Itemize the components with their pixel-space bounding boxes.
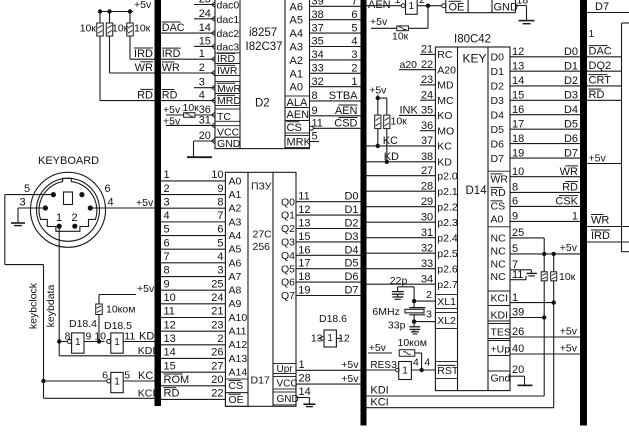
svg-text:D6: D6 bbox=[344, 271, 358, 283]
svg-text:D4: D4 bbox=[491, 110, 505, 122]
svg-text:D6: D6 bbox=[491, 138, 505, 150]
svg-text:17: 17 bbox=[298, 258, 310, 270]
svg-text:12: 12 bbox=[512, 46, 524, 58]
svg-text:8: 8 bbox=[312, 90, 318, 102]
svg-text:15: 15 bbox=[199, 35, 211, 47]
svg-text:keybdata: keybdata bbox=[45, 285, 57, 328]
svg-text:KC: KC bbox=[383, 135, 398, 147]
svg-text:23: 23 bbox=[211, 319, 223, 331]
svg-text:13: 13 bbox=[164, 333, 176, 345]
svg-text:8: 8 bbox=[217, 196, 223, 208]
svg-text:WR: WR bbox=[162, 62, 180, 74]
svg-text:25: 25 bbox=[211, 278, 223, 290]
svg-text:RD: RD bbox=[589, 89, 605, 101]
svg-text:1: 1 bbox=[75, 337, 81, 348]
svg-text:+5v: +5v bbox=[560, 325, 578, 337]
svg-text:AEN: AEN bbox=[335, 105, 358, 117]
svg-text:A0: A0 bbox=[491, 214, 504, 226]
svg-text:25: 25 bbox=[512, 227, 524, 239]
svg-text:6: 6 bbox=[102, 370, 108, 382]
svg-text:5: 5 bbox=[217, 237, 223, 249]
svg-text:14: 14 bbox=[512, 75, 524, 87]
svg-text:23: 23 bbox=[421, 74, 433, 86]
svg-text:33: 33 bbox=[421, 258, 433, 270]
svg-text:3: 3 bbox=[20, 197, 26, 209]
svg-text:DAC: DAC bbox=[162, 22, 185, 34]
svg-text:A12: A12 bbox=[229, 339, 248, 351]
svg-text:KCI: KCI bbox=[370, 397, 388, 409]
svg-text:1: 1 bbox=[572, 211, 578, 223]
svg-text:NC: NC bbox=[491, 259, 507, 271]
svg-text:6: 6 bbox=[217, 224, 223, 236]
svg-text:D0: D0 bbox=[564, 46, 578, 58]
svg-text:WR: WR bbox=[591, 215, 609, 227]
svg-text:A6: A6 bbox=[290, 1, 303, 13]
svg-text:37: 37 bbox=[421, 135, 433, 147]
svg-text:24: 24 bbox=[199, 8, 211, 20]
svg-text:11: 11 bbox=[298, 191, 309, 203]
svg-text:+5v: +5v bbox=[134, 0, 152, 11]
svg-text:D6: D6 bbox=[564, 133, 578, 145]
svg-text:+5v: +5v bbox=[136, 197, 154, 209]
svg-text:+5v: +5v bbox=[370, 16, 388, 28]
svg-text:WR: WR bbox=[491, 174, 509, 186]
svg-text:1: 1 bbox=[299, 359, 305, 371]
svg-text:40: 40 bbox=[512, 343, 524, 355]
svg-text:10ком: 10ком bbox=[398, 337, 427, 349]
svg-text:5: 5 bbox=[312, 131, 318, 143]
svg-text:keybclock: keybclock bbox=[28, 282, 40, 329]
svg-text:39: 39 bbox=[312, 0, 324, 8]
svg-text:A3: A3 bbox=[290, 42, 303, 54]
svg-text:30: 30 bbox=[421, 211, 433, 223]
svg-text:Gnd: Gnd bbox=[491, 373, 511, 385]
svg-text:KD: KD bbox=[139, 331, 154, 343]
svg-text:GND: GND bbox=[494, 1, 519, 13]
svg-text:+5v: +5v bbox=[589, 153, 607, 165]
svg-text:14: 14 bbox=[199, 22, 211, 34]
svg-text:18: 18 bbox=[298, 271, 310, 283]
svg-text:D1: D1 bbox=[491, 66, 505, 78]
svg-text:5: 5 bbox=[512, 243, 518, 255]
svg-text:19: 19 bbox=[298, 285, 310, 297]
svg-text:4: 4 bbox=[351, 36, 357, 48]
svg-text:33p: 33p bbox=[388, 320, 406, 332]
svg-text:AEN: AEN bbox=[287, 109, 310, 121]
svg-text:11: 11 bbox=[164, 306, 175, 318]
svg-text:MD: MD bbox=[437, 80, 454, 92]
svg-text:ПЗУ: ПЗУ bbox=[251, 180, 272, 192]
svg-text:+5v: +5v bbox=[369, 342, 387, 354]
svg-text:p2.0: p2.0 bbox=[437, 171, 458, 183]
svg-text:A2: A2 bbox=[290, 55, 303, 67]
svg-text:RD: RD bbox=[162, 89, 178, 101]
svg-text:32: 32 bbox=[421, 242, 433, 254]
svg-text:10: 10 bbox=[164, 292, 176, 304]
svg-text:4: 4 bbox=[108, 197, 114, 209]
svg-text:11: 11 bbox=[512, 269, 523, 281]
svg-text:11: 11 bbox=[124, 330, 135, 342]
svg-text:1: 1 bbox=[114, 337, 120, 348]
svg-text:7: 7 bbox=[351, 0, 357, 8]
svg-text:10к: 10к bbox=[392, 31, 409, 43]
svg-text:TES: TES bbox=[491, 327, 511, 339]
svg-text:KDI: KDI bbox=[491, 310, 509, 322]
svg-text:24: 24 bbox=[421, 89, 433, 101]
svg-text:6: 6 bbox=[105, 183, 111, 195]
svg-text:KCI: KCI bbox=[491, 293, 509, 305]
svg-text:A1: A1 bbox=[229, 189, 242, 201]
svg-text:i8257: i8257 bbox=[249, 27, 277, 39]
svg-text:A5: A5 bbox=[229, 244, 242, 256]
svg-text:29: 29 bbox=[421, 196, 433, 208]
svg-text:22: 22 bbox=[421, 59, 433, 71]
svg-text:A5: A5 bbox=[290, 15, 303, 27]
svg-text:31: 31 bbox=[421, 227, 433, 239]
svg-text:A8: A8 bbox=[229, 285, 242, 297]
svg-text:16: 16 bbox=[298, 244, 310, 256]
svg-text:MC: MC bbox=[437, 95, 454, 107]
svg-text:7: 7 bbox=[164, 251, 170, 263]
svg-text:2: 2 bbox=[217, 333, 223, 345]
svg-text:18: 18 bbox=[512, 133, 524, 145]
svg-text:A11: A11 bbox=[229, 326, 247, 338]
svg-text:CS: CS bbox=[287, 122, 302, 134]
svg-text:IRD: IRD bbox=[162, 48, 181, 60]
svg-text:OE: OE bbox=[229, 394, 244, 406]
svg-text:A20: A20 bbox=[437, 65, 456, 77]
svg-text:STBA: STBA bbox=[329, 90, 358, 102]
svg-text:17: 17 bbox=[512, 118, 524, 130]
svg-text:D17: D17 bbox=[251, 375, 270, 387]
svg-text:p2.7: p2.7 bbox=[437, 279, 458, 291]
svg-text:+5v: +5v bbox=[137, 283, 155, 295]
svg-text:Q2: Q2 bbox=[281, 223, 295, 235]
svg-text:26: 26 bbox=[512, 326, 524, 338]
svg-text:RD: RD bbox=[491, 187, 507, 199]
svg-text:20: 20 bbox=[512, 364, 524, 376]
svg-text:MRK: MRK bbox=[287, 137, 312, 149]
svg-text:9: 9 bbox=[312, 105, 318, 117]
svg-text:NC: NC bbox=[491, 233, 507, 245]
svg-text:9: 9 bbox=[164, 278, 170, 290]
svg-text:XL2: XL2 bbox=[437, 315, 456, 327]
svg-text:8: 8 bbox=[512, 182, 518, 194]
svg-text:6: 6 bbox=[512, 196, 518, 208]
svg-text:8: 8 bbox=[65, 330, 71, 342]
svg-text:1: 1 bbox=[114, 376, 120, 387]
svg-text:21: 21 bbox=[421, 44, 433, 56]
svg-text:WR: WR bbox=[135, 62, 153, 74]
svg-text:A14: A14 bbox=[229, 367, 248, 379]
svg-text:1: 1 bbox=[402, 366, 408, 377]
svg-text:10ком: 10ком bbox=[106, 304, 135, 316]
svg-text:D2: D2 bbox=[564, 75, 578, 87]
svg-text:Upr: Upr bbox=[277, 364, 294, 375]
svg-text:D1: D1 bbox=[564, 60, 578, 72]
svg-text:A0: A0 bbox=[290, 82, 303, 94]
svg-text:A1: A1 bbox=[290, 68, 303, 80]
svg-text:NC: NC bbox=[491, 271, 507, 283]
svg-text:4: 4 bbox=[164, 210, 170, 222]
svg-text:CSK: CSK bbox=[555, 196, 578, 208]
svg-text:21: 21 bbox=[211, 306, 223, 318]
svg-text:10к: 10к bbox=[112, 23, 129, 35]
svg-text:D7: D7 bbox=[595, 1, 609, 13]
svg-text:+5v: +5v bbox=[560, 342, 578, 354]
svg-text:27C: 27C bbox=[253, 229, 273, 241]
svg-text:36: 36 bbox=[421, 120, 433, 132]
svg-text:28: 28 bbox=[299, 373, 311, 385]
svg-text:D2: D2 bbox=[255, 98, 270, 110]
svg-text:A4: A4 bbox=[229, 230, 242, 242]
svg-text:KO: KO bbox=[437, 110, 452, 122]
svg-text:12: 12 bbox=[298, 204, 310, 216]
svg-text:+5v: +5v bbox=[341, 359, 359, 371]
svg-text:35: 35 bbox=[421, 105, 433, 117]
svg-text:19: 19 bbox=[512, 147, 524, 159]
svg-text:KC: KC bbox=[437, 141, 452, 153]
svg-text:3: 3 bbox=[351, 49, 357, 61]
svg-text:D5: D5 bbox=[344, 258, 358, 270]
svg-text:KDI: KDI bbox=[370, 385, 388, 397]
svg-text:ROM: ROM bbox=[164, 374, 190, 386]
svg-text:NC: NC bbox=[491, 246, 507, 258]
svg-text:27: 27 bbox=[421, 165, 433, 177]
svg-text:XL1: XL1 bbox=[437, 296, 456, 308]
svg-text:10: 10 bbox=[211, 169, 223, 181]
svg-text:KEYBOARD: KEYBOARD bbox=[38, 155, 99, 167]
svg-text:3: 3 bbox=[199, 77, 205, 89]
svg-text:I80C42: I80C42 bbox=[454, 34, 491, 46]
svg-text:32: 32 bbox=[312, 76, 324, 88]
svg-text:26: 26 bbox=[211, 347, 223, 359]
svg-text:+5v: +5v bbox=[560, 242, 578, 254]
svg-text:14: 14 bbox=[299, 386, 311, 398]
svg-text:A7: A7 bbox=[229, 271, 242, 283]
svg-text:6: 6 bbox=[164, 237, 170, 249]
svg-text:16: 16 bbox=[512, 104, 524, 116]
svg-text:ALA: ALA bbox=[287, 97, 308, 109]
svg-text:28: 28 bbox=[421, 180, 433, 192]
svg-text:RST: RST bbox=[437, 365, 459, 377]
svg-text:RD: RD bbox=[137, 89, 153, 101]
svg-text:IRD: IRD bbox=[134, 48, 153, 60]
svg-text:CS: CS bbox=[229, 380, 244, 392]
svg-text:KC: KC bbox=[138, 370, 153, 382]
svg-text:D3: D3 bbox=[564, 90, 578, 102]
svg-text:13: 13 bbox=[512, 60, 524, 72]
svg-text:34: 34 bbox=[421, 273, 433, 285]
svg-text:D5: D5 bbox=[564, 118, 578, 130]
svg-text:A6: A6 bbox=[229, 257, 242, 269]
svg-text:WR: WR bbox=[560, 166, 578, 178]
svg-text:2: 2 bbox=[199, 62, 205, 74]
svg-text:10к: 10к bbox=[559, 271, 576, 283]
svg-text:1: 1 bbox=[395, 0, 401, 6]
svg-text:+Up: +Up bbox=[491, 344, 511, 356]
svg-text:KDI: KDI bbox=[138, 345, 156, 357]
svg-text:38: 38 bbox=[312, 9, 324, 21]
svg-text:Q6: Q6 bbox=[281, 277, 295, 289]
svg-text:15: 15 bbox=[298, 231, 310, 243]
svg-text:D18.6: D18.6 bbox=[319, 313, 347, 325]
svg-text:1: 1 bbox=[327, 333, 333, 344]
svg-text:24: 24 bbox=[211, 292, 223, 304]
svg-text:10: 10 bbox=[512, 166, 524, 178]
svg-text:KD: KD bbox=[437, 157, 452, 169]
svg-text:A3: A3 bbox=[229, 216, 242, 228]
svg-text:9: 9 bbox=[86, 330, 92, 342]
svg-text:+5v: +5v bbox=[369, 85, 387, 97]
svg-text:Q3: Q3 bbox=[281, 237, 295, 249]
svg-text:34: 34 bbox=[312, 49, 324, 61]
svg-text:1: 1 bbox=[351, 76, 357, 88]
svg-text:RC: RC bbox=[437, 49, 453, 61]
svg-text:D4: D4 bbox=[564, 104, 578, 116]
svg-text:1: 1 bbox=[409, 1, 415, 12]
svg-text:4: 4 bbox=[217, 251, 223, 263]
svg-text:1: 1 bbox=[589, 28, 595, 40]
svg-text:2: 2 bbox=[426, 289, 432, 301]
svg-text:5: 5 bbox=[124, 370, 130, 382]
svg-text:dac2: dac2 bbox=[217, 28, 240, 40]
svg-text:10к: 10к bbox=[183, 102, 200, 114]
svg-text:DQ2: DQ2 bbox=[589, 60, 612, 72]
svg-text:dac1: dac1 bbox=[217, 14, 240, 26]
svg-text:D7: D7 bbox=[344, 285, 358, 297]
svg-text:DAC: DAC bbox=[589, 46, 612, 58]
svg-text:23: 23 bbox=[199, 0, 211, 6]
svg-text:Q0: Q0 bbox=[281, 196, 295, 208]
svg-text:31: 31 bbox=[199, 114, 211, 126]
svg-text:p2.5: p2.5 bbox=[437, 248, 458, 260]
svg-text:D3: D3 bbox=[344, 231, 358, 243]
svg-text:p2.1: p2.1 bbox=[437, 186, 458, 198]
svg-text:27: 27 bbox=[211, 360, 223, 372]
svg-text:RD: RD bbox=[562, 182, 578, 194]
svg-text:+5v: +5v bbox=[163, 104, 181, 116]
svg-text:3: 3 bbox=[164, 196, 170, 208]
svg-text:256: 256 bbox=[253, 241, 271, 253]
svg-text:Q5: Q5 bbox=[281, 263, 295, 275]
svg-text:5: 5 bbox=[164, 224, 170, 236]
svg-text:A9: A9 bbox=[229, 298, 242, 310]
svg-text:15: 15 bbox=[164, 360, 176, 372]
svg-text:10к: 10к bbox=[134, 23, 151, 35]
svg-text:7: 7 bbox=[217, 210, 223, 222]
svg-text:2: 2 bbox=[164, 183, 170, 195]
svg-text:Q4: Q4 bbox=[281, 250, 295, 262]
svg-text:8: 8 bbox=[164, 265, 170, 277]
svg-text:A0: A0 bbox=[229, 175, 242, 187]
svg-text:CS: CS bbox=[491, 201, 506, 213]
svg-text:A13: A13 bbox=[229, 353, 248, 365]
svg-text:39: 39 bbox=[512, 307, 524, 319]
svg-text:D14: D14 bbox=[466, 185, 488, 197]
svg-text:20: 20 bbox=[199, 130, 211, 142]
svg-text:Q1: Q1 bbox=[281, 210, 295, 222]
svg-text:9: 9 bbox=[217, 183, 223, 195]
svg-text:22: 22 bbox=[211, 388, 223, 400]
svg-text:a20: a20 bbox=[400, 59, 418, 71]
svg-text:D3: D3 bbox=[491, 95, 505, 107]
svg-text:20: 20 bbox=[211, 374, 223, 386]
svg-text:p2.6: p2.6 bbox=[437, 264, 458, 276]
svg-text:D2: D2 bbox=[491, 81, 505, 93]
svg-text:D2: D2 bbox=[344, 218, 358, 230]
svg-text:p2.4: p2.4 bbox=[437, 233, 458, 245]
svg-text:35: 35 bbox=[312, 36, 324, 48]
svg-text:2: 2 bbox=[72, 212, 78, 224]
svg-text:5: 5 bbox=[351, 22, 357, 34]
svg-text:3: 3 bbox=[217, 265, 223, 277]
svg-text:D7: D7 bbox=[491, 153, 505, 165]
svg-text:13: 13 bbox=[298, 218, 310, 230]
svg-text:dac3: dac3 bbox=[217, 41, 240, 53]
svg-text:10: 10 bbox=[94, 330, 106, 342]
svg-text:14: 14 bbox=[164, 347, 176, 359]
svg-text:5: 5 bbox=[24, 183, 30, 195]
svg-text:D7: D7 bbox=[564, 147, 578, 159]
svg-text:D0: D0 bbox=[344, 191, 358, 203]
svg-text:D4: D4 bbox=[344, 244, 358, 256]
svg-text:GND: GND bbox=[277, 394, 299, 405]
svg-text:KEY: KEY bbox=[463, 52, 487, 66]
svg-text:RD: RD bbox=[164, 388, 180, 400]
svg-text:p2.3: p2.3 bbox=[437, 217, 458, 229]
svg-text:33: 33 bbox=[312, 63, 324, 75]
svg-text:dac0: dac0 bbox=[217, 0, 240, 12]
svg-text:I82C37: I82C37 bbox=[246, 41, 283, 53]
svg-text:6MHz: 6MHz bbox=[372, 306, 399, 318]
svg-text:4: 4 bbox=[413, 357, 419, 369]
svg-text:A10: A10 bbox=[229, 312, 248, 324]
svg-text:1: 1 bbox=[56, 212, 62, 224]
svg-text:MO: MO bbox=[437, 126, 454, 138]
svg-text:38: 38 bbox=[421, 151, 433, 163]
svg-text:2: 2 bbox=[351, 63, 357, 75]
svg-text:1: 1 bbox=[199, 48, 205, 60]
svg-text:A2: A2 bbox=[229, 203, 242, 215]
svg-text:A4: A4 bbox=[290, 28, 303, 40]
svg-text:1: 1 bbox=[164, 169, 170, 181]
svg-text:15: 15 bbox=[512, 90, 524, 102]
svg-text:+5v: +5v bbox=[341, 373, 359, 385]
svg-text:6: 6 bbox=[351, 9, 357, 21]
svg-text:IRD: IRD bbox=[591, 230, 610, 242]
svg-text:KCI: KCI bbox=[138, 388, 156, 400]
svg-text:CSD: CSD bbox=[334, 118, 357, 130]
svg-text:D18.4: D18.4 bbox=[69, 318, 97, 330]
svg-text:4: 4 bbox=[199, 90, 205, 102]
svg-text:D1: D1 bbox=[344, 204, 358, 216]
svg-text:37: 37 bbox=[312, 22, 324, 34]
svg-text:12: 12 bbox=[164, 319, 176, 331]
svg-text:10к: 10к bbox=[391, 116, 408, 128]
svg-text:4: 4 bbox=[424, 357, 430, 369]
svg-text:22p: 22p bbox=[390, 275, 408, 287]
svg-text:CRT: CRT bbox=[589, 75, 612, 87]
svg-text:D5: D5 bbox=[491, 124, 505, 136]
svg-text:D0: D0 bbox=[491, 52, 505, 64]
svg-text:10к: 10к bbox=[80, 23, 97, 35]
svg-text:1: 1 bbox=[512, 292, 518, 304]
svg-text:OE: OE bbox=[449, 1, 465, 13]
svg-text:Q7: Q7 bbox=[281, 290, 295, 302]
svg-text:VCC: VCC bbox=[277, 378, 298, 389]
svg-text:9: 9 bbox=[512, 211, 518, 223]
